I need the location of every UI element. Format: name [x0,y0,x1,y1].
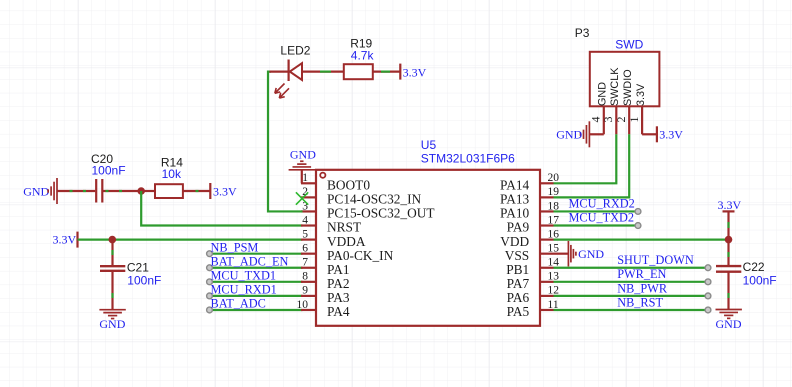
open end node (MCU_RXD1) [207,293,213,299]
svg-text:SWDIO: SWDIO [622,69,634,106]
open end node (NB_RST) [705,307,711,313]
U5 pin 10 stub [301,309,316,311]
U5 pin 8 stub [301,281,316,283]
LED2 emission arrows [275,84,289,99]
svg-text:PA9: PA9 [507,220,530,235]
svg-text:5: 5 [302,228,308,240]
U5 pin 12 stub [540,295,554,297]
connector P3 body [590,52,660,107]
svg-text:2: 2 [614,117,628,123]
wire C22 to GND [727,272,729,310]
svg-text:NB_RST: NB_RST [617,295,663,309]
svg-text:PA4: PA4 [327,304,350,319]
svg-text:7: 7 [302,257,308,269]
wire (green dot) [119,190,122,192]
capacitor C20 [96,179,102,203]
wire junction to C22 [727,240,729,266]
open end node (MCU_RXD2) [635,209,641,215]
svg-text:VDD: VDD [500,234,529,249]
P3 pin 1 stub [641,106,643,134]
wire (green segment) [727,293,729,298]
resistor R19 [344,64,373,79]
LED2 cathode lead [270,70,289,72]
svg-text:MCU_TXD2: MCU_TXD2 [569,211,635,225]
open end node (BAT_ADC) [207,307,213,313]
svg-text:SHUT_DOWN: SHUT_DOWN [617,253,694,267]
svg-text:4.7k: 4.7k [351,48,375,62]
svg-text:1: 1 [302,172,308,184]
svg-text:PA10: PA10 [500,206,530,221]
svg-text:PA0-CK_IN: PA0-CK_IN [327,248,394,263]
svg-text:BAT_ADC: BAT_ADC [211,297,266,311]
ground symbol (P3) [581,121,590,147]
U5 pin 3 stub [301,210,316,212]
wire SWCLK to PA14 pin20 [554,134,617,183]
power pin 3.3V (VDDA rail) [76,232,78,248]
power pin 3.3V (P3) [656,126,658,142]
svg-text:100nF: 100nF [127,273,161,287]
wire net MCU_RXD1 [210,295,303,297]
U5 pin 9 stub [301,295,316,297]
svg-text:PA7: PA7 [507,276,530,291]
wire junction down to NRST [141,191,302,226]
wire R19 to 3.3V [373,70,401,72]
svg-text:GND: GND [556,128,582,142]
U5 pin 15 stub [540,253,554,255]
wire (green segment) [320,70,331,72]
svg-text:SWCLK: SWCLK [609,67,621,106]
svg-text:100nF: 100nF [743,274,777,288]
resistor R14 [155,184,183,198]
svg-text:3.3V: 3.3V [403,65,427,79]
wire (green segment) [381,70,390,72]
U5 pin 2 stub [301,196,316,198]
U5 pin 20 stub [540,182,554,184]
wire net NB_PSM [210,253,303,255]
svg-text:PA14: PA14 [500,178,530,193]
ground symbol (VSS) [568,241,576,266]
wire net PWR_EN [554,281,709,283]
wire net MCU_RXD2 [554,210,639,212]
svg-text:MCU_RXD1: MCU_RXD1 [211,283,277,297]
wire (green segment) [111,293,113,298]
U5 pin 11 stub [540,309,554,311]
svg-text:3.3V: 3.3V [659,128,683,142]
U5 pin 17 stub [540,224,554,226]
svg-text:PA3: PA3 [327,290,350,305]
svg-text:3.3V: 3.3V [635,83,647,106]
svg-text:8: 8 [302,271,308,283]
wire net MCU_TXD1 [210,281,303,283]
U5 pin 16 stub [540,239,554,241]
LED LED2 [289,60,302,82]
wire net NB_PWR [554,295,709,297]
P3 pin 3 stub [615,106,617,134]
open end node (PWR_EN) [705,279,711,285]
wire net BAT_ADC [210,309,303,311]
wire P3 pin4 to GND [589,133,603,135]
U5 pin 18 stub [540,210,554,212]
svg-text:GND: GND [716,317,742,331]
wire (green dot) [83,190,86,192]
junction node (VDD / C22) [725,236,733,244]
svg-text:PWR_EN: PWR_EN [617,267,666,281]
wire (green dot) [70,190,73,192]
svg-text:C22: C22 [743,260,765,274]
wire (green segment) [727,222,729,228]
wire (green dot) [196,190,199,192]
svg-text:BAT_ADC_EN: BAT_ADC_EN [211,254,289,268]
svg-text:9: 9 [302,285,308,297]
wire (green dot) [106,190,109,192]
open end node (SHUT_DOWN) [705,265,711,271]
ground symbol (left rail, pointing left) [48,178,57,204]
junction node (NRST net) [137,187,145,195]
P3 pin 4 stub [603,106,605,134]
open end node (BAT_ADC_EN) [207,265,213,271]
svg-text:GND: GND [23,185,49,199]
svg-text:NB_PSM: NB_PSM [211,240,259,254]
svg-text:4: 4 [302,214,308,226]
wire net MCU_TXD2 [554,224,639,226]
wire 3.3V down to junction [727,211,729,239]
svg-text:LED2: LED2 [280,44,310,58]
wire GND to C20 [57,190,95,192]
U5 pin 6 stub [301,253,316,255]
svg-text:VSS: VSS [505,248,529,263]
svg-text:NB_PWR: NB_PWR [617,281,668,295]
svg-text:3: 3 [601,117,615,123]
svg-text:STM32L031F6P6: STM32L031F6P6 [421,152,515,166]
power pin 3.3V (C22 rail) [723,210,735,212]
svg-text:3.3V: 3.3V [213,185,237,199]
svg-text:1: 1 [627,117,641,123]
U5 pin 1 indicator circle [320,173,325,178]
capacitor C22 [716,266,741,272]
ground symbol (BOOT0) [289,161,315,170]
wire R14 to 3.3V [183,190,210,192]
svg-text:10k: 10k [162,167,182,181]
svg-text:NRST: NRST [327,220,361,235]
svg-text:U5: U5 [421,138,437,152]
svg-text:3.3V: 3.3V [718,198,742,212]
open end node (NB_PWR) [705,293,711,299]
U5 pin 19 stub [540,196,554,198]
P3 pin 2 stub [628,106,630,134]
U5 pin 1 stub [301,182,316,184]
svg-text:MCU_TXD1: MCU_TXD1 [211,268,277,282]
power pin 3.3V (R19) [399,64,401,80]
wire PC15 pin3 to LED2 (vertical run) [268,72,303,212]
svg-text:3.3V: 3.3V [53,232,77,246]
svg-text:MCU_RXD2: MCU_RXD2 [569,197,635,211]
wire LED2 to R19 [302,70,344,72]
svg-text:SWD: SWD [615,38,643,52]
U5 pin 7 stub [301,267,316,269]
op-amp/MCU U5 STM32L031F6P6 body [316,170,540,326]
junction node (VDDA / C21) [109,236,117,244]
svg-text:PA6: PA6 [507,290,530,305]
svg-text:PC14-OSC32_IN: PC14-OSC32_IN [327,192,422,207]
wire BOOT0 pin1 to GND [301,170,303,184]
svg-text:P3: P3 [575,26,590,40]
svg-text:C21: C21 [127,260,149,274]
svg-text:GND: GND [597,82,609,106]
svg-text:PA2: PA2 [327,276,350,291]
wire junction to R14 [141,190,155,192]
wire 3.3V to VDDA pin 5 [78,239,303,241]
svg-text:6: 6 [302,242,308,254]
svg-text:GND: GND [290,148,316,162]
svg-text:PB1: PB1 [506,262,529,277]
svg-text:GND: GND [578,247,604,261]
U5 pin 5 stub [301,239,316,241]
open end node (NB_PSM) [207,251,213,257]
wire VDD pin16 to 3.3V rail [554,239,729,241]
wire net NB_RST [554,309,709,311]
wire P3 pin1 to 3.3V [642,133,657,135]
wire net BAT_ADC_EN [210,267,303,269]
svg-text:100nF: 100nF [92,163,126,177]
svg-text:PA1: PA1 [327,262,350,277]
U5 pin 13 stub [540,281,554,283]
wire SWDIO to PA13 pin19 [554,134,630,197]
svg-text:PA13: PA13 [500,192,530,207]
wire VSS pin15 to GND [554,253,569,255]
wire C20 to junction [102,190,141,192]
U5 pin 14 stub [540,267,554,269]
wire net SHUT_DOWN [554,267,709,269]
svg-text:VDDA: VDDA [327,234,366,249]
svg-text:GND: GND [99,317,125,331]
U5 pin 4 stub [301,224,316,226]
ground symbol (C21) [99,310,125,319]
wire C21 to GND [111,271,113,310]
no-connect X on pin 2 [296,192,308,204]
svg-text:PA5: PA5 [507,304,530,319]
svg-text:PC15-OSC32_OUT: PC15-OSC32_OUT [327,206,435,221]
wire (green segment) [727,252,729,257]
capacitor C21 [100,266,125,271]
wire junction down to C21 [111,240,113,266]
power pin 3.3V (R14) [209,183,211,199]
open end node (MCU_TXD1) [207,279,213,285]
ground symbol (C22) [716,310,742,319]
svg-text:10: 10 [297,299,309,311]
wire (green segment) [111,250,113,255]
svg-text:BOOT0: BOOT0 [327,178,370,193]
open end node (MCU_TXD2) [635,223,641,229]
